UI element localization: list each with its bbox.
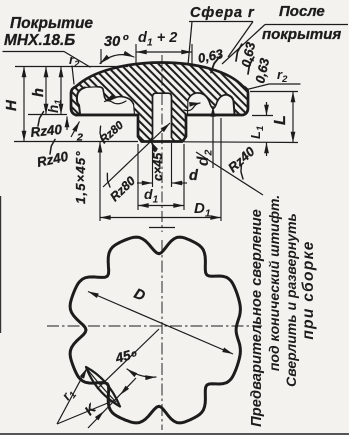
30deg extension line	[100, 49, 102, 64]
svg-text:Покрытие: Покрытие	[10, 15, 93, 32]
30 deg arc arrow	[100, 55, 134, 64]
dimension h	[45, 67, 47, 115]
dimension L1 (outside arrows)	[266, 102, 268, 116]
svg-text:МНХ.18.Б: МНХ.18.Б	[4, 32, 75, 49]
svg-text:2: 2	[76, 132, 83, 144]
svg-text:Сфера r: Сфера r	[190, 5, 255, 21]
svg-text:L: L	[272, 115, 289, 125]
left underside cavity	[76, 87, 134, 114]
svg-text:30: 30	[104, 34, 120, 50]
top extension line	[15, 66, 128, 68]
dimension L	[292, 92, 294, 143]
45 deg arc	[127, 369, 156, 377]
hub-bottom line extended	[14, 141, 138, 143]
flange-bottom extension right	[252, 115, 273, 117]
svg-text:d1 + 2: d1 + 2	[138, 30, 177, 49]
star knob outline (plan view)	[70, 237, 240, 423]
label h2	[66, 117, 68, 131]
scan edge artifact bottom	[0, 433, 349, 435]
dimension h1	[60, 67, 62, 115]
Rz80 hole, with leader	[103, 123, 170, 187]
svg-text:Сверлить и развернуть: Сверлить и развернуть	[283, 213, 299, 387]
radius squiggle arrow, right cavity	[184, 103, 200, 111]
dimension D1	[100, 217, 221, 219]
axis tick between views	[149, 227, 175, 229]
svg-text:h: h	[31, 88, 47, 97]
svg-text:После: После	[279, 3, 325, 20]
flange-bottom extension (left)	[28, 114, 67, 116]
svg-text:o: o	[123, 32, 129, 43]
knob outline bold	[76, 63, 243, 87]
right underside cavity	[188, 93, 235, 114]
right rim inner wall	[228, 95, 235, 114]
D1 right extension	[220, 118, 222, 221]
dimension K	[88, 378, 136, 428]
left cavity scallop arcs	[97, 87, 134, 104]
dimension D diagonal	[88, 292, 233, 355]
dimension H	[23, 67, 25, 142]
assembly note (rotated)	[249, 195, 317, 427]
svg-text:при сборке: при сборке	[300, 240, 317, 339]
svg-text:d: d	[189, 168, 199, 184]
coating note leader	[3, 52, 90, 68]
svg-text:H: H	[3, 99, 20, 111]
left rim inner wall	[77, 88, 85, 115]
vertical centreline	[161, 55, 163, 232]
radial line to notch	[97, 329, 159, 389]
dimension d1	[138, 205, 184, 207]
centre hole (d)	[150, 93, 175, 141]
scan edge artifact left	[0, 196, 2, 333]
knob body section, hatched	[71, 63, 248, 142]
svg-text:с×45°: с×45°	[151, 147, 165, 181]
svg-text:покрытия: покрытия	[262, 26, 341, 43]
D1 left extension with arrow	[99, 142, 101, 221]
star horizontal centreline	[47, 325, 262, 327]
d2 pointer	[212, 106, 214, 168]
svg-text:1,5×45°: 1,5×45°	[73, 150, 88, 204]
Rz40 hub face with long leader	[196, 152, 263, 195]
svg-text:под конический штифт.: под конический штифт.	[266, 195, 282, 371]
rim-top extension	[250, 91, 298, 93]
dimension d	[137, 182, 153, 184]
sphere leader	[188, 22, 192, 66]
right cavity scallop arcs	[188, 93, 228, 109]
hub wall extensions	[137, 144, 139, 210]
r1 emphasized notch arc	[86, 367, 120, 407]
hole wall extensions	[152, 143, 154, 187]
svg-text:Предварительное сверление: Предварительное сверление	[249, 209, 265, 427]
after-coating leader	[222, 25, 265, 65]
radius squiggle arrow, left cavity	[105, 101, 127, 104]
